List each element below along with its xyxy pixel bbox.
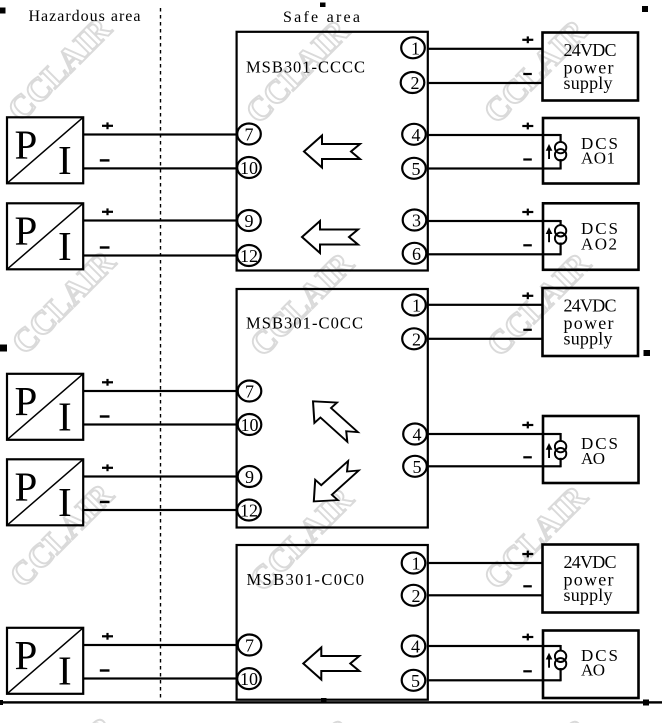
signal arrow s3 bbox=[303, 648, 359, 680]
svg-text:2: 2 bbox=[412, 329, 421, 349]
terminal 10 s2 bbox=[238, 414, 262, 435]
transmitter P/I 4 box bbox=[7, 459, 83, 525]
selection handle top-right bbox=[642, 6, 648, 12]
wire terminal 4 to DCS AO + s3 bbox=[429, 645, 561, 647]
polarity - 24VDC s3 bbox=[523, 585, 532, 587]
DCS AO s2 current source circles bbox=[555, 441, 566, 459]
svg-text:4: 4 bbox=[412, 125, 421, 145]
wire terminal 2 to 24VDC - s1 bbox=[429, 82, 543, 84]
svg-text:6: 6 bbox=[412, 244, 421, 264]
wire P/I 3 + bbox=[83, 390, 236, 392]
DCS AO s2 current direction arrow bbox=[546, 443, 553, 458]
svg-text:AO2: AO2 bbox=[581, 235, 617, 254]
svg-text:10: 10 bbox=[240, 669, 258, 689]
signal arrow s2 ch1 (NW) bbox=[302, 391, 364, 447]
signal arrow s2 ch2 (SW) bbox=[302, 456, 364, 512]
polarity - of P/I 3 bbox=[100, 415, 110, 417]
DCS AO s3 current source circles bbox=[555, 651, 566, 670]
svg-text:MSB301-C0C0: MSB301-C0C0 bbox=[247, 570, 365, 589]
DCS AO1 stub + wire to current source bbox=[560, 134, 562, 142]
polarity + of P/I 2 bbox=[102, 208, 113, 215]
svg-text:7: 7 bbox=[245, 382, 254, 402]
DCS AO1 current direction arrow bbox=[546, 144, 553, 159]
DCS AO2 current source circles bbox=[555, 225, 566, 244]
svg-text:supply: supply bbox=[564, 73, 613, 93]
svg-text:Hazardous area: Hazardous area bbox=[29, 8, 141, 25]
DCS AO2 current direction arrow bbox=[546, 227, 553, 242]
wire P/I 5 - bbox=[83, 677, 236, 679]
svg-text:12: 12 bbox=[240, 246, 258, 266]
polarity - 24VDC s2 bbox=[523, 329, 532, 331]
DCS AO s3 stub - wire from current source bbox=[560, 668, 562, 681]
wire terminal 2 to 24VDC - s3 bbox=[429, 594, 543, 596]
svg-text:supply: supply bbox=[564, 585, 613, 605]
svg-text:10: 10 bbox=[240, 158, 258, 178]
svg-text:5: 5 bbox=[412, 159, 421, 179]
transmitter P/I 1 box bbox=[7, 117, 83, 183]
svg-text:1: 1 bbox=[412, 296, 421, 316]
transmitter P/I 2 box bbox=[7, 203, 83, 269]
DCS AO s3 stub + wire to current source bbox=[560, 645, 562, 651]
wire P/I 5 + bbox=[83, 644, 236, 646]
wire P/I 2 - bbox=[83, 254, 236, 256]
svg-text:P: P bbox=[15, 208, 38, 254]
signal arrow s1 ch1 bbox=[304, 136, 360, 168]
wire terminal 6 to DCS AO2 - bbox=[429, 253, 561, 255]
terminal 5 s1 bbox=[402, 158, 426, 179]
polarity + DCS AO2 bbox=[522, 209, 533, 216]
svg-text:supply: supply bbox=[564, 329, 613, 349]
svg-text:AO1: AO1 bbox=[581, 149, 615, 168]
svg-text:P: P bbox=[15, 378, 38, 424]
svg-text:7: 7 bbox=[245, 125, 254, 145]
wire terminal 2 to 24VDC - s2 bbox=[429, 338, 543, 340]
polarity - of P/I 4 bbox=[100, 501, 110, 503]
polarity - DCS AO s3 bbox=[523, 670, 532, 672]
terminal 1 s1 bbox=[401, 37, 425, 58]
wire terminal 1 to 24VDC + s3 bbox=[429, 562, 543, 564]
24VDC power supply box s3 bbox=[543, 545, 639, 613]
selection handle top-left bbox=[0, 8, 6, 14]
svg-text:9: 9 bbox=[245, 467, 254, 487]
polarity - 24VDC s1 bbox=[523, 73, 532, 75]
svg-text:AO: AO bbox=[581, 449, 605, 468]
DCS AO s2 stub - wire from current source bbox=[560, 458, 562, 468]
terminal 10 s3 bbox=[237, 668, 261, 689]
polarity + of P/I 4 bbox=[102, 464, 113, 471]
wire terminal 5 to DCS AO - s3 bbox=[429, 679, 561, 681]
svg-text:I: I bbox=[58, 393, 72, 439]
svg-text:Safe area: Safe area bbox=[283, 9, 360, 26]
DCS AO s2 box bbox=[543, 416, 639, 483]
terminal 7 s3 bbox=[238, 635, 262, 656]
polarity + DCS AO1 bbox=[522, 123, 533, 130]
terminal 7 s2 bbox=[238, 381, 262, 402]
polarity + of P/I 1 bbox=[102, 122, 113, 129]
svg-text:MSB301-CCCC: MSB301-CCCC bbox=[246, 58, 365, 77]
wire terminal 4 to DCS AO1 + bbox=[429, 134, 561, 136]
wire terminal 5 to DCS AO - s2 bbox=[429, 465, 561, 467]
terminal 6 s1 bbox=[403, 243, 427, 264]
transmitter P/I 5 box bbox=[7, 628, 83, 694]
terminal 4 s1 bbox=[402, 124, 426, 145]
terminal 12 s1 bbox=[237, 245, 261, 266]
polarity - of P/I 2 bbox=[100, 246, 110, 248]
wire P/I 1 - bbox=[83, 167, 236, 169]
DCS AO2 box bbox=[543, 203, 639, 269]
wire P/I 3 - bbox=[83, 423, 236, 425]
terminal 4 s3 bbox=[402, 636, 426, 657]
isolator MSB301-CCCC body bbox=[237, 32, 428, 271]
svg-text:P: P bbox=[15, 464, 38, 510]
svg-text:4: 4 bbox=[411, 637, 420, 657]
svg-text:5: 5 bbox=[411, 671, 420, 691]
DCS AO2 stub + wire to current source bbox=[560, 220, 562, 226]
selection handle bottom-left bbox=[0, 700, 3, 705]
selection handle bottom-center bbox=[321, 698, 327, 704]
wire terminal 4 to DCS AO + s2 bbox=[429, 433, 561, 435]
terminal 2 s1 bbox=[401, 72, 425, 93]
svg-text:MSB301-C0CC: MSB301-C0CC bbox=[246, 313, 363, 332]
selection handle mid-right bbox=[644, 350, 651, 356]
selection handle mid-left bbox=[0, 345, 7, 352]
svg-text:2: 2 bbox=[412, 586, 421, 606]
24VDC power supply box s2 bbox=[543, 288, 639, 356]
terminal 2 s2 bbox=[402, 328, 426, 349]
polarity + 24VDC s3 bbox=[522, 551, 533, 558]
signal arrow s1 ch2 bbox=[302, 221, 358, 253]
wire terminal 1 to 24VDC + s1 bbox=[429, 48, 543, 50]
terminal 9 s2 bbox=[238, 466, 262, 487]
svg-text:I: I bbox=[58, 647, 72, 693]
wire terminal 1 to 24VDC + s2 bbox=[429, 304, 543, 306]
24VDC power supply box s1 bbox=[543, 33, 639, 101]
DCS AO s3 current direction arrow bbox=[546, 653, 553, 668]
svg-text:I: I bbox=[58, 479, 72, 525]
terminal 7 s1 bbox=[237, 124, 261, 145]
terminal 4 s2 bbox=[403, 424, 427, 445]
svg-text:P: P bbox=[15, 122, 38, 168]
svg-text:4: 4 bbox=[413, 425, 422, 445]
svg-text:AO: AO bbox=[581, 660, 605, 679]
DCS AO s2 stub + wire to current source bbox=[560, 433, 562, 441]
terminal 3 s1 bbox=[403, 210, 427, 231]
DCS AO1 current source circles bbox=[555, 142, 566, 161]
bottom frame line bbox=[0, 701, 662, 703]
polarity - DCS AO1 bbox=[523, 158, 532, 160]
selection handle bottom-right bbox=[643, 700, 649, 706]
terminal 12 s2 bbox=[237, 500, 261, 521]
wire P/I 4 + bbox=[83, 475, 236, 477]
svg-text:12: 12 bbox=[240, 501, 258, 521]
terminal 2 s3 bbox=[402, 585, 426, 606]
svg-text:1: 1 bbox=[411, 38, 420, 58]
wire P/I 1 + bbox=[83, 133, 236, 135]
svg-text:10: 10 bbox=[241, 415, 259, 435]
polarity + DCS AO s3 bbox=[522, 634, 533, 641]
polarity - of P/I 5 bbox=[100, 669, 110, 671]
wire terminal 5 to DCS AO1 - bbox=[429, 167, 561, 169]
polarity + 24VDC s2 bbox=[522, 292, 533, 299]
terminal 1 s3 bbox=[402, 553, 426, 574]
hazardous/safe boundary dashed line bbox=[160, 8, 162, 701]
polarity + of P/I 3 bbox=[102, 379, 113, 386]
terminal 9 s1 bbox=[237, 210, 261, 231]
terminal 10 s1 bbox=[237, 157, 261, 178]
transmitter P/I 3 box bbox=[7, 374, 83, 440]
DCS AO1 stub - wire from current source bbox=[560, 159, 562, 170]
DCS AO s3 box bbox=[543, 631, 639, 699]
polarity + 24VDC s1 bbox=[522, 36, 533, 43]
svg-text:I: I bbox=[58, 223, 72, 269]
svg-text:I: I bbox=[58, 137, 72, 183]
svg-text:2: 2 bbox=[411, 73, 420, 93]
terminal 1 s2 bbox=[402, 295, 426, 316]
polarity - of P/I 1 bbox=[100, 159, 110, 161]
DCS AO2 stub - wire from current source bbox=[560, 243, 562, 256]
polarity + of P/I 5 bbox=[102, 633, 113, 640]
svg-text:1: 1 bbox=[412, 554, 421, 574]
polarity - DCS AO s2 bbox=[523, 456, 532, 458]
DCS AO1 box bbox=[543, 118, 639, 184]
isolator MSB301-C0C0 body bbox=[237, 545, 428, 700]
svg-text:3: 3 bbox=[412, 211, 421, 231]
isolator MSB301-C0CC body bbox=[237, 289, 428, 528]
wire P/I 4 - bbox=[83, 509, 236, 511]
svg-text:7: 7 bbox=[245, 636, 254, 656]
terminal 5 s3 bbox=[402, 670, 426, 691]
svg-text:9: 9 bbox=[245, 211, 254, 231]
wire terminal 3 to DCS AO2 + bbox=[429, 220, 561, 222]
wire P/I 2 + bbox=[83, 219, 236, 221]
polarity + DCS AO s2 bbox=[522, 422, 533, 429]
selection handle top-center bbox=[320, 3, 326, 8]
svg-text:P: P bbox=[15, 632, 38, 678]
svg-text:5: 5 bbox=[413, 457, 422, 477]
terminal 5 s2 bbox=[403, 456, 427, 477]
polarity - DCS AO2 bbox=[523, 244, 532, 246]
